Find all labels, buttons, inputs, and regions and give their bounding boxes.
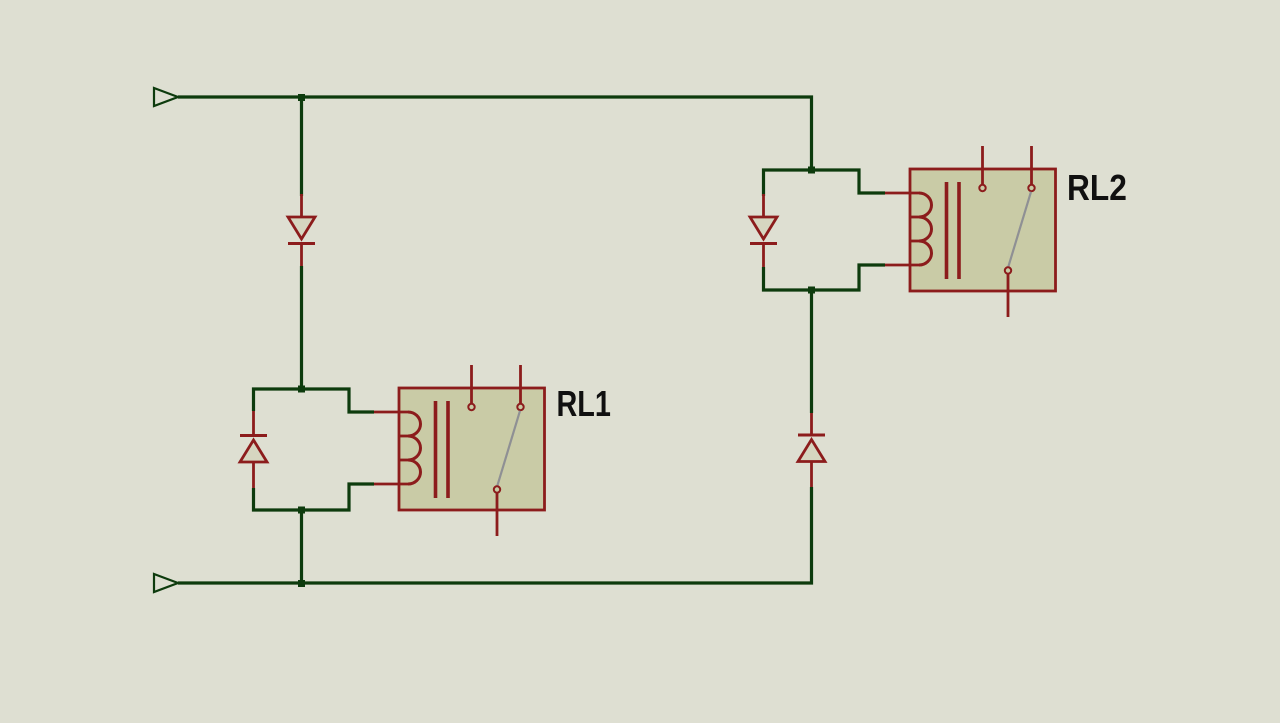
- node B (junction RL1 loop top): [298, 386, 305, 393]
- relay RL1: [374, 365, 611, 536]
- wire: left column lower segment to RL1 loop: [300, 266, 303, 389]
- relay RL1 coil pin stubs: [374, 411, 408, 414]
- diode D3 (RL2 freewheel, cathode down): [750, 194, 777, 267]
- wire: top rail from T1 to top-right corner, down to RL2 loop: [178, 97, 812, 170]
- relay RL1 contact pin 2: [519, 365, 522, 404]
- relay RL1 switch blade: [497, 411, 520, 486]
- relay RL2 common contact: [1005, 267, 1011, 273]
- wire: bottom rail: [178, 487, 812, 583]
- relay RL1 coil: [408, 412, 421, 484]
- diode D4 (right column, cathode up): [798, 413, 825, 487]
- terminal T2 (bottom-left input): [154, 574, 178, 592]
- wire: right column down to D4: [810, 290, 813, 413]
- svg-text:RL1: RL1: [557, 383, 611, 424]
- diode D1 (left column, cathode down): [288, 194, 315, 266]
- wire: RL1 loop left branch (lower part): [254, 488, 302, 510]
- svg-text:RL2: RL2: [1067, 168, 1127, 208]
- node F (junction RL2 loop bottom): [808, 287, 815, 294]
- relay RL1 common contact: [494, 486, 500, 492]
- wire: left column upper segment: [300, 97, 303, 196]
- relay RL2: [885, 146, 1127, 317]
- wire: RL2 coil top connection: [812, 170, 886, 193]
- relay RL2 coil pin stubs: [885, 192, 919, 195]
- relay RL2 body: [910, 169, 1056, 291]
- node C (junction RL1 loop bottom): [298, 507, 305, 514]
- relay RL2 coil: [919, 193, 932, 265]
- wire: RL1 coil bottom connection: [302, 484, 375, 510]
- relay RL2 contact pin 1: [981, 146, 984, 185]
- wire: RL1 coil top connection: [302, 389, 375, 412]
- node A (junction top rail / left column): [298, 94, 305, 101]
- relay RL2 switch blade: [1008, 192, 1031, 267]
- wire: RL2 loop left branch (lower part): [764, 267, 812, 290]
- wire: RL1 loop left branch (upper part): [254, 389, 302, 411]
- relay RL1 core: [434, 401, 438, 498]
- wire: RL2 coil bottom connection: [812, 265, 886, 290]
- relay RL2 contact pin 2: [1030, 146, 1033, 185]
- node E (junction RL2 loop top): [808, 167, 815, 174]
- relay RL1 body: [399, 388, 545, 510]
- diode D2 (RL1 freewheel, cathode up): [240, 411, 267, 488]
- terminal T1 (top-left input): [154, 88, 178, 106]
- node D (junction bottom rail / left column): [298, 580, 305, 587]
- relay RL2 core: [945, 182, 949, 279]
- relay RL1 contact pin 1: [470, 365, 473, 404]
- wire: left column to bottom rail: [300, 510, 303, 584]
- wire: RL2 loop left branch (upper part): [764, 170, 812, 196]
